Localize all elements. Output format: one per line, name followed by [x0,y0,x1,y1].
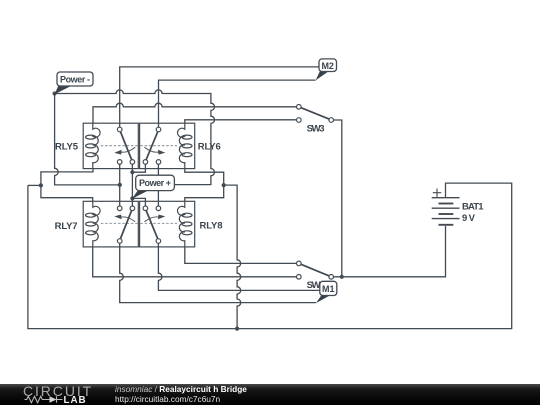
svg-text:SW3: SW3 [307,124,325,135]
svg-text:RLY8: RLY8 [200,221,223,232]
svg-text:RLY7: RLY7 [55,221,78,232]
svg-text:M1: M1 [322,284,335,294]
svg-text:M2: M2 [321,61,334,71]
svg-text:RLY6: RLY6 [198,142,221,153]
svg-text:9 V: 9 V [462,213,476,224]
svg-text:insomniac / Realaycircuit h Br: insomniac / Realaycircuit h Bridge [115,384,247,394]
svg-text:http://circuitlab.com/c7c6u7n: http://circuitlab.com/c7c6u7n [115,394,221,404]
svg-text:Power -: Power - [60,74,90,84]
svg-text:RLY5: RLY5 [55,142,79,153]
svg-text:BAT1: BAT1 [462,201,484,212]
svg-text:Power +: Power + [139,178,171,188]
svg-text:LAB: LAB [64,395,87,405]
